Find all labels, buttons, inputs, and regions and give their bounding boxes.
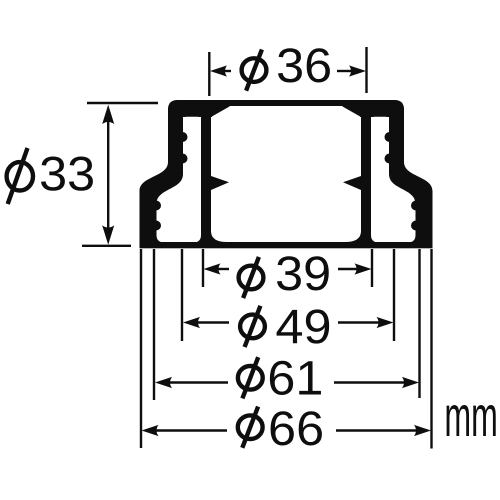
right half of part (mirrored) (343, 103, 433, 248)
phi39 right arrowhead (355, 263, 372, 274)
label 49 (277, 310, 302, 343)
phi33 bottom extension line (82, 245, 131, 247)
phi66 left arrow shaft (154, 429, 227, 431)
cap top bar (168, 100, 404, 111)
phi39 left arrow shaft (216, 268, 229, 270)
phi33 top extension line (87, 102, 158, 104)
phi36 left arrowhead (210, 65, 227, 76)
phi39 right extension line (371, 249, 373, 287)
label 36 (278, 48, 302, 82)
phi49 right arrowhead (377, 317, 394, 328)
phi36 left extension line (208, 52, 210, 96)
phi33 vertical dimension line (107, 110, 109, 240)
bottom membrane bar (140, 242, 433, 248)
phi36 right extension line (365, 47, 367, 93)
phi symbol for 61 (238, 357, 263, 398)
phi61 left arrow shaft (168, 381, 228, 383)
phi61 right extension line (418, 249, 420, 398)
label 33 (41, 157, 65, 191)
left half of part (140, 103, 230, 248)
label mm (447, 405, 470, 436)
phi61 left arrowhead (155, 377, 172, 388)
phi66 right arrowhead (414, 425, 431, 436)
phi66 right extension line (430, 249, 432, 449)
label 39 (277, 256, 301, 290)
phi symbol for 49 (240, 306, 265, 347)
phi symbol for 66 (238, 407, 263, 448)
phi33 up arrowhead (102, 105, 114, 125)
phi49 left arrowhead (183, 317, 200, 328)
phi66 right arrow shaft (336, 429, 419, 431)
phi symbol for 36 (242, 50, 267, 91)
phi66 left arrowhead (142, 425, 159, 436)
phi33 down arrowhead (102, 225, 114, 245)
phi symbol for 33 (7, 162, 33, 190)
phi49 left arrow shaft (196, 321, 229, 323)
label 61 (270, 361, 293, 395)
phi61 left extension line (153, 249, 155, 400)
phi36 right arrowhead (349, 65, 366, 76)
phi49 left extension line (181, 249, 183, 341)
phi61 right arrow shaft (334, 381, 407, 383)
phi39 left extension line (202, 249, 204, 287)
phi36 left arrow shaft (222, 70, 231, 72)
phi36 right arrow shaft (337, 70, 352, 72)
phi61 right arrowhead (402, 377, 419, 388)
phi66 left extension line (140, 249, 142, 448)
phi49 right arrow shaft (338, 321, 381, 323)
phi symbol for 39 (239, 257, 264, 298)
label 66 (271, 411, 294, 445)
phi39 left arrowhead (204, 263, 221, 274)
phi49 right extension line (393, 249, 395, 341)
phi39 right arrow shaft (338, 268, 359, 270)
